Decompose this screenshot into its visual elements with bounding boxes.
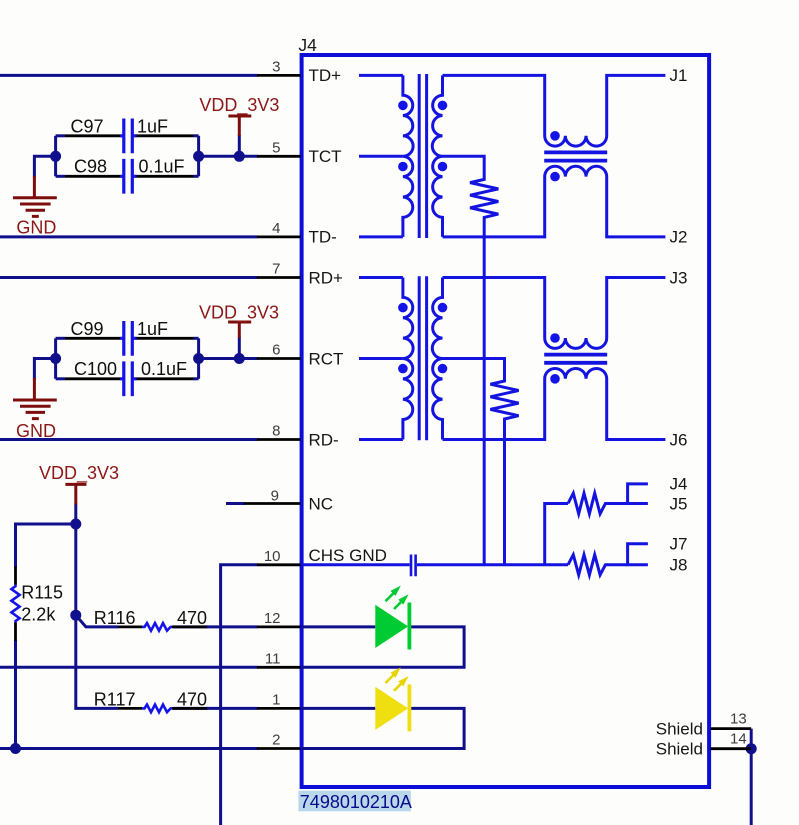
choke CH1 bottom winding to J2 bbox=[443, 166, 666, 237]
pin 8 bbox=[257, 438, 301, 441]
LED yellow arrow 2 bbox=[394, 683, 402, 691]
svg-text:RD-: RD- bbox=[309, 430, 339, 449]
ground symbol GND (top) bbox=[13, 176, 57, 216]
wire RCT internal bbox=[359, 357, 403, 360]
junction dot TCT left node bbox=[50, 151, 61, 162]
svg-text:4: 4 bbox=[272, 220, 280, 237]
svg-text:12: 12 bbox=[264, 610, 281, 627]
resistor termination J4/J5 bbox=[568, 493, 628, 514]
power symbol VDD_3V3 (top, TCT) bbox=[228, 116, 251, 136]
svg-text:J3: J3 bbox=[670, 268, 688, 287]
svg-text:0.1uF: 0.1uF bbox=[141, 359, 187, 379]
svg-text:TD+: TD+ bbox=[309, 66, 342, 85]
svg-text:RCT: RCT bbox=[309, 349, 344, 368]
junction dot VDD rail R116 tap bbox=[70, 610, 81, 621]
wire VDD rail vertical bbox=[76, 504, 118, 709]
svg-text:CHS GND: CHS GND bbox=[309, 546, 387, 565]
wire TD- internal bbox=[359, 235, 403, 238]
resistor termination RD centre tap bbox=[443, 359, 519, 565]
junction dot RCT right node bbox=[193, 353, 204, 364]
svg-text:10: 10 bbox=[264, 548, 281, 565]
pin 10 bbox=[257, 563, 301, 566]
resistor R117 zigzag bbox=[142, 705, 172, 713]
wire net RD+ pin7 bbox=[0, 276, 258, 279]
wire C99/C100 to GND bbox=[34, 359, 55, 381]
svg-text:J5: J5 bbox=[670, 494, 688, 513]
resistor termination J7/J8 bbox=[568, 555, 628, 575]
junction dot VDD rail R115 tap bbox=[70, 519, 81, 530]
svg-text:RD+: RD+ bbox=[309, 268, 344, 287]
LED green (link/activity) triangle bbox=[375, 605, 408, 648]
wire C97 left lead bbox=[56, 134, 65, 137]
choke CH2 core bbox=[544, 355, 607, 363]
pin 9 bbox=[244, 502, 301, 505]
wire VDD2 drop to RCT bbox=[238, 337, 241, 359]
transformer T1 secondary winding bbox=[432, 75, 442, 237]
wire riser to J4/J5 termination bbox=[545, 504, 568, 565]
svg-text:5: 5 bbox=[272, 139, 280, 156]
wire shield pins 13-14 down to sheet edge bbox=[750, 729, 753, 825]
wire net TD- pin4 bbox=[0, 235, 258, 238]
wire R115 bottom to pin2 net bbox=[14, 640, 17, 749]
wire net RD- pin8 bbox=[0, 438, 258, 441]
svg-text:2: 2 bbox=[272, 732, 280, 749]
part number highlight bbox=[298, 791, 411, 812]
pin 7 bbox=[257, 276, 301, 279]
connector J4 body bbox=[302, 55, 709, 787]
wire yellow LED anode from pin1 bbox=[302, 707, 375, 710]
wire C99/C100 left vertical bbox=[54, 338, 57, 379]
junction dot RCT left node bbox=[50, 353, 61, 364]
wire C97 right lead bbox=[194, 134, 199, 137]
svg-text:0.1uF: 0.1uF bbox=[139, 157, 185, 177]
wire bracket J7 stub bbox=[628, 544, 648, 565]
wire C97/C98 to GND bbox=[34, 156, 55, 178]
wire net CHS_GND pin10 down to sheet edge bbox=[221, 565, 258, 825]
wire tap to R115 bbox=[16, 524, 76, 568]
svg-text:Shield: Shield bbox=[656, 719, 703, 738]
svg-text:TD-: TD- bbox=[309, 228, 337, 247]
svg-text:9: 9 bbox=[271, 487, 279, 504]
wire net TCT pin5 bbox=[199, 155, 258, 158]
svg-text:J2: J2 bbox=[670, 228, 688, 247]
wire net pin11 bbox=[0, 666, 258, 669]
junction dot shield pin14 bbox=[746, 743, 757, 754]
LED green arrow 2 bbox=[394, 601, 402, 609]
junction dot RCT VDD node bbox=[234, 353, 245, 364]
wire RD- internal bbox=[359, 438, 403, 441]
wire R117 right lead bbox=[173, 707, 208, 710]
svg-text:470: 470 bbox=[177, 689, 207, 709]
junction dot TCT right node bbox=[193, 151, 204, 162]
choke CH1 core bbox=[544, 152, 607, 160]
svg-text:J8: J8 bbox=[670, 556, 688, 575]
pin 5 bbox=[257, 155, 301, 158]
transformer T1 primary winding bbox=[403, 75, 413, 237]
capacitor C98 pins bbox=[65, 175, 194, 178]
wire net pin2 bbox=[0, 747, 258, 750]
transformer T1 polarity dots bbox=[398, 101, 408, 111]
transformer T2 core bbox=[419, 276, 426, 440]
pin 4 bbox=[257, 235, 301, 238]
wire C100 right lead bbox=[194, 377, 199, 380]
svg-text:J1: J1 bbox=[670, 66, 688, 85]
svg-text:7498010210A: 7498010210A bbox=[300, 792, 412, 812]
capacitor chassis series plates bbox=[411, 555, 416, 577]
pin 6 bbox=[257, 357, 301, 360]
transformer T2 polarity dots bbox=[398, 303, 408, 313]
wire net TD+ pin3 bbox=[0, 74, 258, 77]
pin 2 bbox=[257, 747, 301, 750]
pin 11 bbox=[257, 666, 301, 669]
svg-text:8: 8 bbox=[272, 423, 280, 440]
svg-text:J7: J7 bbox=[670, 535, 688, 554]
capacitor C100 plates bbox=[120, 361, 137, 396]
LED yellow cathode bar bbox=[407, 684, 411, 731]
svg-text:C100: C100 bbox=[74, 359, 117, 379]
wire C97/C98 right vertical bbox=[197, 136, 200, 177]
svg-text:C99: C99 bbox=[71, 319, 104, 339]
svg-text:C98: C98 bbox=[74, 157, 107, 177]
svg-text:1uF: 1uF bbox=[137, 116, 168, 136]
svg-text:GND: GND bbox=[16, 421, 56, 441]
wire VDD rail tap to R116 bbox=[76, 615, 118, 627]
wire yellow LED cathode loop to pin2 bbox=[302, 708, 464, 748]
wire C99 left lead bbox=[56, 337, 65, 340]
transformer T2 primary winding bbox=[403, 278, 413, 440]
choke CH1 top winding to J1 bbox=[443, 75, 666, 146]
pin 12 bbox=[257, 626, 301, 629]
wire R116 to pin12 bbox=[207, 625, 258, 628]
resistor R116 pins bbox=[118, 626, 207, 629]
wire C99/C100 right vertical bbox=[197, 338, 200, 379]
wire VDD1 drop to TCT bbox=[238, 135, 241, 156]
LED yellow (speed) triangle bbox=[375, 687, 408, 730]
LED green arrow 1 bbox=[386, 593, 395, 602]
wire C98 left lead bbox=[56, 175, 65, 178]
capacitor C99 plates bbox=[120, 321, 137, 356]
resistor R115 zigzag bbox=[11, 585, 19, 623]
resistor termination TD centre tap bbox=[443, 156, 499, 565]
power symbol VDD_3V3 (mid, RCT) bbox=[228, 322, 251, 338]
resistor R116 zigzag bbox=[142, 623, 172, 631]
pin 13 bbox=[711, 727, 752, 730]
svg-text:NC: NC bbox=[309, 494, 334, 513]
power symbol VDD_3V3 (left, LED rail) bbox=[65, 484, 86, 504]
resistor R117 pins bbox=[118, 707, 207, 710]
capacitor C100 pins bbox=[65, 377, 194, 380]
wire TD+ internal bbox=[359, 74, 403, 77]
svg-text:VDD_3V3: VDD_3V3 bbox=[199, 302, 279, 323]
capacitor C98 plates bbox=[120, 159, 137, 194]
svg-text:7: 7 bbox=[272, 261, 280, 278]
LED yellow arrow 1 bbox=[386, 675, 395, 684]
svg-text:14: 14 bbox=[730, 731, 747, 748]
capacitor C97 pins bbox=[65, 134, 194, 137]
svg-text:470: 470 bbox=[177, 608, 207, 628]
svg-text:2.2k: 2.2k bbox=[21, 605, 56, 625]
wire TCT internal bbox=[359, 155, 403, 158]
svg-text:GND: GND bbox=[16, 218, 56, 238]
svg-text:6: 6 bbox=[272, 342, 280, 359]
pin 14 bbox=[711, 747, 752, 750]
svg-text:1uF: 1uF bbox=[137, 319, 168, 339]
svg-text:J6: J6 bbox=[670, 430, 688, 449]
junction dot TCT VDD node bbox=[234, 151, 245, 162]
svg-text:3: 3 bbox=[272, 58, 280, 75]
wire C99 right lead bbox=[194, 337, 199, 340]
wire RD+ internal bbox=[359, 276, 403, 279]
transformer T1 core bbox=[419, 74, 426, 238]
svg-text:R116: R116 bbox=[94, 608, 136, 628]
choke CH2 bottom winding to J6 bbox=[443, 368, 666, 439]
wire net RCT pin6 bbox=[199, 357, 258, 360]
choke CH2 polarity dots bbox=[550, 333, 560, 343]
svg-text:VDD_3V3: VDD_3V3 bbox=[199, 95, 279, 116]
svg-text:C97: C97 bbox=[71, 116, 104, 136]
wire green LED cathode loop to pin11 bbox=[302, 627, 464, 667]
choke CH2 top winding to J3 bbox=[443, 278, 666, 349]
ground symbol GND (mid) bbox=[13, 378, 57, 419]
wire CHS GND internal left bbox=[302, 563, 410, 566]
wire C97/C98 left vertical bbox=[54, 136, 57, 177]
wire green LED anode from pin12 bbox=[302, 625, 375, 628]
capacitor C99 pins bbox=[65, 337, 194, 340]
svg-text:R115: R115 bbox=[21, 583, 63, 603]
resistor R115 pins bbox=[14, 567, 17, 641]
svg-text:J4: J4 bbox=[298, 35, 317, 55]
pin 3 bbox=[257, 74, 301, 77]
wire C100 left lead bbox=[56, 377, 65, 380]
wire CHS GND internal right bbox=[417, 563, 568, 566]
LED green cathode bar bbox=[407, 603, 411, 650]
svg-text:TCT: TCT bbox=[309, 147, 342, 166]
svg-text:11: 11 bbox=[265, 650, 281, 667]
svg-text:1: 1 bbox=[272, 691, 280, 708]
svg-text:VDD_3V3: VDD_3V3 bbox=[39, 463, 119, 484]
svg-text:J4: J4 bbox=[670, 475, 688, 494]
transformer T2 secondary winding bbox=[432, 278, 442, 440]
junction dot R115 bottom pin2 net bbox=[10, 743, 21, 754]
svg-text:Shield: Shield bbox=[656, 740, 703, 759]
capacitor C97 plates bbox=[120, 119, 137, 154]
wire stub NC pin9 bbox=[226, 502, 245, 505]
wire R116 right lead bbox=[173, 625, 208, 628]
wire bracket J4 stub bbox=[628, 484, 648, 504]
svg-text:R117: R117 bbox=[94, 689, 136, 709]
wire C98 right lead bbox=[194, 175, 199, 178]
pin 1 bbox=[257, 707, 301, 710]
choke CH1 polarity dots bbox=[550, 131, 560, 141]
svg-text:13: 13 bbox=[730, 711, 747, 728]
wire R117 to pin1 bbox=[207, 707, 258, 710]
